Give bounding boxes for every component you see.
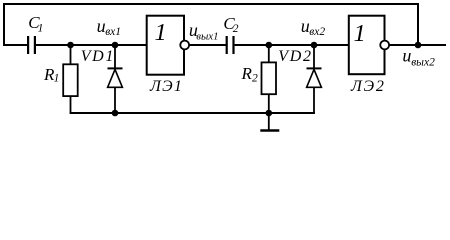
- wire: VD1 top lead: [114, 45, 116, 68]
- label u_vx2: [301, 16, 326, 38]
- wire: C1 left lead: [3, 44, 27, 46]
- wire: C2 to LE2 input: [235, 44, 349, 46]
- wire: LE2 output stub: [389, 44, 446, 46]
- svg-text:вх1: вх1: [105, 26, 121, 38]
- svg-text:вых1: вых1: [196, 31, 218, 43]
- label u_vyx1: [189, 20, 219, 43]
- svg-text:R: R: [241, 64, 253, 83]
- svg-text:ЛЭ1: ЛЭ1: [149, 78, 183, 95]
- logic element LE1 box: [147, 16, 184, 75]
- label C2: [223, 14, 238, 35]
- inversion bubble LE2: [380, 41, 389, 50]
- label VD1: [81, 48, 115, 65]
- node: junction at VD2 cathode (top): [311, 42, 318, 49]
- svg-text:1: 1: [54, 73, 60, 85]
- svg-text:ЛЭ2: ЛЭ2: [350, 78, 386, 95]
- resistor R2: [262, 62, 277, 94]
- wire: left vertical drop to C1: [3, 3, 5, 46]
- wire: LE1 output to C2: [189, 44, 226, 46]
- svg-text:2: 2: [233, 23, 239, 35]
- svg-text:вых2: вых2: [411, 56, 435, 68]
- node: junction at ground: [266, 110, 273, 117]
- wire: top feedback rail: [3, 3, 419, 5]
- svg-text:VD2: VD2: [278, 48, 312, 65]
- wire: R1 top lead: [70, 45, 72, 65]
- node: junction at VD1 anode (bottom): [112, 110, 119, 117]
- svg-text:2: 2: [252, 73, 258, 85]
- wire: R1 bottom lead: [70, 96, 72, 113]
- label u_vyx2: [402, 45, 435, 68]
- diode VD2: [307, 68, 322, 114]
- svg-text:1: 1: [38, 23, 44, 35]
- ground: [260, 113, 279, 131]
- wire: R2 top lead: [268, 45, 270, 63]
- node: junction at R2 top: [266, 42, 273, 49]
- label 1 (LE2 function): [354, 20, 366, 47]
- capacitor C2: [227, 36, 234, 54]
- label LE2: [350, 78, 386, 95]
- svg-text:вх2: вх2: [309, 26, 325, 38]
- label u_vx1: [97, 16, 121, 38]
- svg-text:1: 1: [354, 20, 366, 47]
- label LE1: [149, 78, 183, 95]
- logic element LE2 box: [349, 16, 385, 74]
- label R1: [43, 65, 59, 85]
- wire: C1 to LE1 input: [36, 44, 147, 46]
- wire: right vertical feedback riser: [417, 3, 419, 45]
- label C1: [28, 13, 43, 34]
- capacitor C1: [28, 36, 35, 54]
- wire: bottom rail: [70, 112, 315, 114]
- diode VD1: [108, 68, 123, 113]
- node: junction at VD1 cathode (top): [112, 42, 119, 49]
- label R2: [241, 64, 259, 84]
- svg-text:1: 1: [155, 19, 167, 46]
- label VD2: [278, 48, 312, 65]
- node: junction at R1 top: [67, 42, 74, 49]
- label 1 (LE1 function): [155, 19, 167, 46]
- node: output junction (feedback tap): [415, 42, 422, 49]
- inversion bubble LE1: [180, 41, 189, 50]
- resistor R1: [63, 64, 77, 96]
- svg-text:u: u: [402, 45, 411, 65]
- svg-text:VD1: VD1: [81, 48, 115, 65]
- wire: R2 bottom lead: [268, 94, 270, 113]
- wire: VD2 top lead: [313, 45, 315, 68]
